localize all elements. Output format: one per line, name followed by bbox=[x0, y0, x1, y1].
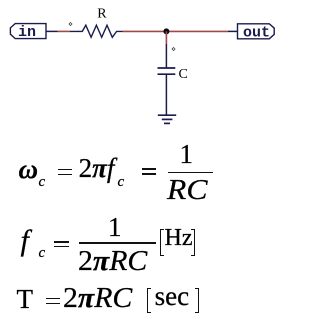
wire: black stub to OUT box bbox=[228, 30, 238, 32]
fraction bar bbox=[79, 242, 156, 244]
equals sign bbox=[142, 168, 157, 170]
numerator 1 bbox=[108, 214, 122, 241]
port IN box bbox=[10, 24, 46, 39]
svg-text:in: in bbox=[18, 24, 36, 41]
wire: black stub from IN box bbox=[46, 30, 58, 32]
2 pi RC bbox=[63, 285, 132, 313]
wire: red segment IN-to-resistor bbox=[58, 30, 71, 32]
port OUT box bbox=[238, 24, 275, 39]
T bbox=[17, 286, 34, 313]
svg-text:C: C bbox=[179, 67, 188, 82]
denominator RC bbox=[167, 177, 207, 205]
numerator 1 bbox=[180, 141, 194, 168]
unit [Hz] bracket right bbox=[191, 229, 195, 255]
ground symbol bbox=[158, 115, 176, 123]
f bbox=[21, 226, 29, 256]
omega bbox=[19, 156, 39, 183]
unit [sec] bracket right bbox=[195, 288, 200, 314]
fraction bar bbox=[168, 172, 213, 174]
wire: navy vertical capacitor-to-ground bbox=[165, 74, 167, 115]
equals sign bbox=[54, 241, 69, 243]
node: junction dot bbox=[163, 28, 169, 34]
capacitor C (plates) bbox=[158, 68, 176, 74]
wire: red segment node-to-OUT bbox=[166, 30, 228, 32]
wire: red segment resistor-to-node bbox=[123, 30, 167, 32]
circuit schematic bbox=[0, 0, 285, 140]
subscript c bbox=[118, 175, 125, 190]
denominator 2 pi RC bbox=[78, 248, 147, 276]
wire: navy vertical lead to capacitor bbox=[165, 44, 167, 68]
resistor R (zigzag) bbox=[70, 25, 123, 37]
2 pi f bbox=[79, 155, 115, 182]
equals sign bbox=[58, 169, 73, 171]
unit [Hz] bracket left bbox=[160, 229, 164, 255]
wire: red vertical segment node-to-capacitor bbox=[165, 31, 167, 44]
unit [sec] text bbox=[155, 283, 189, 310]
equals sign bbox=[46, 298, 61, 300]
svg-text:out: out bbox=[243, 24, 270, 41]
subscript c bbox=[39, 246, 46, 261]
unit [sec] bracket left bbox=[147, 288, 152, 314]
marker: connection diamond at resistor left terminal bbox=[69, 23, 72, 26]
subscript c bbox=[39, 175, 46, 190]
svg-text:R: R bbox=[97, 7, 107, 22]
marker: connection diamond at capacitor top terminal bbox=[172, 48, 175, 51]
unit [Hz] text bbox=[165, 226, 193, 250]
